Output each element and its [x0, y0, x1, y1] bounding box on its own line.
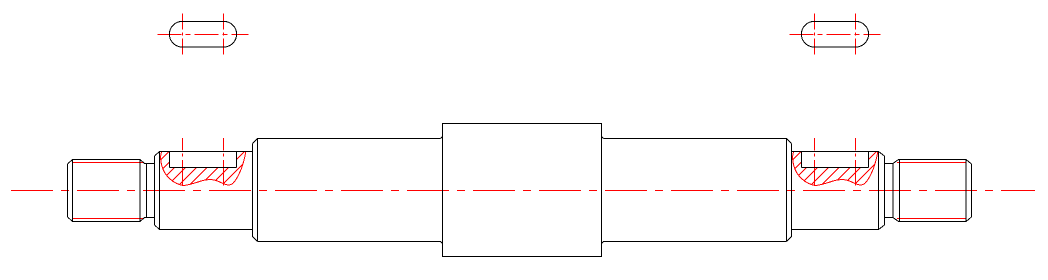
right journal bottom line — [792, 229, 879, 231]
left groove top line — [145, 163, 155, 165]
left groove bottom line — [145, 217, 155, 219]
left thread major-diameter bottom — [73, 221, 141, 223]
left keyway slot bottom — [170, 167, 237, 169]
left keyway hatch — [129, 147, 260, 192]
left shoulder chamfer top — [253, 139, 258, 144]
left keyway slot right wall — [236, 152, 238, 168]
left journal bottom line — [160, 229, 253, 231]
left middle section chamfer base line — [257, 139, 259, 242]
right journal end face — [884, 156, 886, 225]
right thread minor-diameter line top — [897, 162, 966, 164]
right keyway hatch — [761, 147, 892, 192]
right thread runout line — [899, 160, 901, 222]
left thread minor-diameter line bottom — [73, 218, 145, 220]
left thread-to-groove step bottom — [140, 218, 145, 222]
left thread end face — [67, 164, 69, 217]
left keyseat vertical centerline B — [223, 13, 225, 54]
left keyway front vertical centerline A — [182, 138, 184, 186]
left keyway break-line blob — [161, 151, 246, 185]
right thread minor-diameter line bottom — [897, 218, 966, 220]
right journal top line — [792, 151, 879, 153]
right middle section top line — [604, 138, 787, 140]
left thread major-diameter top — [73, 159, 141, 161]
left middle section bottom line — [258, 241, 441, 243]
left journal chamfer base line — [159, 152, 161, 230]
left middle end chamfer top — [441, 137, 443, 139]
left thread minor-diameter line top — [73, 162, 145, 164]
right thread chamfer base line — [965, 160, 967, 222]
right thread chamfer bottom — [966, 217, 972, 222]
right journal chamfer base line — [878, 152, 880, 230]
left groove inner wall — [146, 164, 148, 218]
left thread chamfer top — [68, 160, 73, 165]
right shoulder face — [791, 144, 793, 237]
left thread runout line — [139, 160, 141, 222]
left middle end chamfer bottom — [441, 242, 443, 244]
left middle section top line — [258, 138, 441, 140]
left keyseat horizontal centerline — [158, 34, 249, 36]
right keyway front vertical centerline A — [814, 138, 816, 186]
right keyway slot left wall — [801, 152, 803, 168]
right keyway front vertical centerline B — [855, 138, 857, 186]
right journal chamfer top — [879, 152, 885, 157]
left journal top line — [160, 151, 253, 153]
right groove bottom line — [885, 217, 894, 219]
right shoulder chamfer bottom — [787, 237, 792, 242]
right groove-to-thread step bottom — [893, 218, 899, 222]
right middle start chamfer bottom — [602, 242, 604, 244]
right middle chamfer base line — [786, 139, 788, 242]
left journal chamfer top — [155, 152, 160, 157]
right shoulder chamfer top — [787, 139, 792, 144]
left shoulder face — [252, 144, 254, 237]
left keyway front vertical centerline B — [223, 138, 225, 186]
right groove top line — [885, 163, 894, 165]
right keyseat horizontal centerline — [790, 34, 881, 36]
right keyseat top view outline — [801, 21, 868, 47]
right keyseat vertical centerline A — [814, 13, 816, 54]
right thread major-diameter top — [899, 159, 967, 161]
right middle section bottom line — [604, 241, 787, 243]
right journal chamfer bottom — [879, 225, 885, 230]
central collar outline — [443, 124, 602, 257]
main shaft centerline — [11, 190, 1035, 192]
left thread chamfer base line — [72, 160, 74, 222]
left keyseat vertical centerline A — [182, 13, 184, 54]
left thread-to-groove step top — [140, 160, 145, 164]
left journal chamfer bottom — [155, 225, 160, 230]
right keyway slot right wall — [868, 152, 870, 168]
left shoulder chamfer bottom — [253, 237, 258, 242]
right middle start chamfer top — [602, 137, 604, 139]
right thread chamfer top — [966, 160, 972, 165]
right keyway slot bottom — [802, 167, 869, 169]
right keyseat vertical centerline B — [855, 13, 857, 54]
right thread major-diameter bottom — [899, 221, 967, 223]
left keyseat top view outline — [169, 21, 236, 47]
right groove inner wall — [892, 164, 894, 218]
left keyway slot left wall — [169, 152, 171, 168]
left thread chamfer bottom — [68, 217, 73, 222]
left journal end face — [154, 156, 156, 225]
right groove-to-thread step top — [893, 160, 899, 164]
right keyway break-line blob — [793, 151, 878, 185]
right thread end face — [971, 164, 973, 217]
